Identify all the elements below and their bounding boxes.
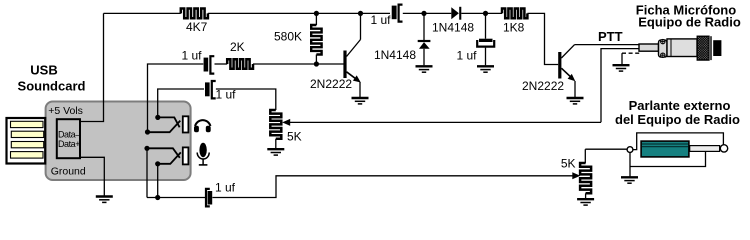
svg-text:Ground: Ground [51,166,86,178]
svg-text:del Equipo de Radio: del Equipo de Radio [615,112,740,127]
svg-text:USB: USB [30,63,57,78]
svg-text:5K: 5K [561,157,576,171]
svg-text:+5 Vols: +5 Vols [48,105,83,117]
svg-text:4K7: 4K7 [186,20,208,34]
svg-text:PTT: PTT [598,29,623,44]
svg-text:1N4148: 1N4148 [374,48,416,62]
svg-text:1 uf: 1 uf [370,13,391,27]
svg-text:1 uf: 1 uf [216,88,237,102]
svg-text:Parlante externo: Parlante externo [629,98,731,113]
svg-text:1K8: 1K8 [503,21,525,35]
svg-text:Soundcard: Soundcard [18,79,86,94]
svg-text:Equipo de Radio: Equipo de Radio [638,15,741,30]
svg-text:Data+: Data+ [58,139,80,149]
svg-text:2N2222: 2N2222 [522,79,564,93]
svg-text:1 uf: 1 uf [456,49,477,63]
svg-text:2K: 2K [230,40,245,54]
svg-text:1N4148: 1N4148 [432,21,474,35]
svg-text:1 uf: 1 uf [215,181,236,195]
svg-text:1 uf: 1 uf [181,49,202,63]
svg-text:580K: 580K [274,30,302,44]
svg-text:2N2222: 2N2222 [310,77,352,91]
svg-text:5K: 5K [287,130,302,144]
svg-text:Data–: Data– [58,130,80,140]
